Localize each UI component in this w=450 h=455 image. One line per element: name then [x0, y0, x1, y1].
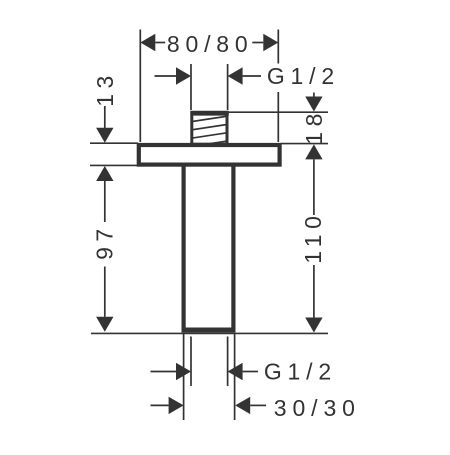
pipe right wall: [231, 165, 235, 330]
flange-top extension line right: [281, 143, 328, 145]
80/80 right extension line: [277, 30, 279, 143]
dimension G1/2 bottom: [151, 371, 259, 373]
pipe left wall: [182, 165, 186, 330]
svg-text:97: 97: [91, 223, 117, 260]
stub-top extension line right: [229, 111, 329, 113]
svg-text:13: 13: [92, 70, 118, 107]
flange-top extension line left: [90, 142, 138, 144]
svg-text:G1/2: G1/2: [264, 359, 337, 385]
svg-text:G1/2: G1/2: [267, 63, 340, 89]
dimension 18: [313, 93, 315, 98]
bottom extension line: [91, 332, 328, 334]
hatch lines (thread) inside stub: [192, 116, 227, 146]
dimension 13: [104, 106, 106, 128]
svg-text:110: 110: [300, 211, 326, 264]
threaded stub outline: [190, 113, 228, 145]
dimension 97: [96, 166, 113, 181]
svg-text:30/30: 30/30: [274, 395, 361, 421]
ceiling line left: [90, 164, 138, 166]
flange plate outline: [139, 145, 280, 165]
dimension G1/2 top: [155, 75, 262, 77]
thread extension lines top: [191, 64, 228, 110]
80/80 left extension line: [139, 30, 141, 143]
svg-text:80/80: 80/80: [167, 31, 254, 57]
pipe edge extension lines bottom: [184, 334, 235, 420]
svg-text:18: 18: [301, 108, 327, 145]
pipe bottom end: [182, 328, 236, 333]
dimension 30/30: [151, 404, 267, 406]
dimension 80/80: [155, 42, 263, 44]
thread extension lines bottom: [191, 337, 228, 387]
dimension 110: [305, 144, 322, 159]
